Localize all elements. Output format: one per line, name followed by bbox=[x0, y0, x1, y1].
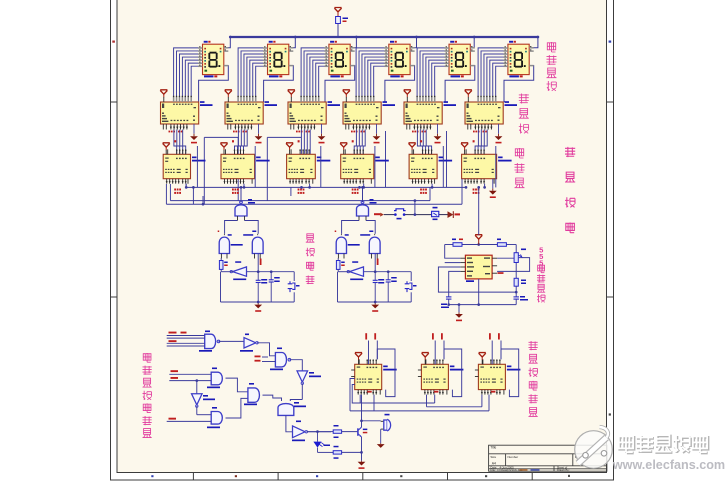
wire collector to speaker bbox=[360, 419, 381, 422]
nand gate U21B bbox=[263, 395, 307, 432]
wire BCD counter 2 to decoder 2 bbox=[235, 130, 248, 155]
inverter U19B bbox=[289, 360, 321, 400]
svg-text:Drawn By:: Drawn By: bbox=[557, 468, 570, 472]
ground decoder U5 bbox=[434, 124, 442, 143]
inverter U19C bbox=[192, 379, 216, 414]
wire display 5 return bbox=[445, 66, 475, 102]
power VCC counter U9 bbox=[286, 143, 293, 155]
wire BCD counter 1 to decoder 1 bbox=[174, 130, 186, 155]
wire trigger chain bbox=[374, 199, 448, 216]
wire display 1 return bbox=[199, 66, 229, 102]
nand gate U13A bbox=[235, 187, 255, 220]
counter U10 74LS160 bbox=[341, 140, 389, 194]
ground decoder U1 bbox=[190, 124, 198, 143]
wire bundle decoder to display 6 bbox=[478, 48, 504, 102]
power VCC decoder U4 bbox=[343, 90, 350, 102]
ground decoder U2 bbox=[255, 124, 263, 143]
nand gate U14C bbox=[360, 231, 380, 259]
label 555多谐振荡 bbox=[537, 246, 545, 303]
decoder U4 74LS48 bbox=[343, 96, 395, 133]
7-seg display DS1 bbox=[198, 41, 228, 78]
7-seg display DS2 bbox=[263, 41, 293, 78]
svg-text:Title: Title bbox=[490, 446, 496, 450]
power VCC counter U11 bbox=[409, 143, 416, 155]
wire U14 branches bbox=[342, 221, 376, 234]
power VCC divider U23 bbox=[422, 353, 429, 365]
label 数字时钟 bbox=[565, 147, 575, 233]
wire feedback loop U24 bbox=[501, 349, 519, 397]
ground decoder U6 bbox=[495, 124, 503, 143]
switch S trigger bbox=[392, 209, 409, 220]
svg-text:File:: File: bbox=[490, 468, 496, 472]
capacitor C1 555 bbox=[441, 297, 451, 308]
power VCC decoder U1 bbox=[160, 90, 167, 102]
diode D trigger bbox=[448, 211, 461, 218]
power VCC counter U8 bbox=[220, 143, 227, 155]
label 译码器 bbox=[519, 94, 529, 134]
7-seg display DS3 bbox=[324, 41, 354, 78]
nand gate U18B bbox=[255, 343, 291, 370]
wire bus row 2 bbox=[170, 184, 430, 201]
capacitor C set 1 bbox=[256, 272, 268, 302]
wire display 6 return bbox=[504, 66, 534, 102]
power VCC counter U10 bbox=[340, 143, 347, 155]
wire clock input U23 bbox=[432, 333, 444, 364]
resistor R3 555 bbox=[514, 278, 526, 292]
decoder U3 74LS48 bbox=[288, 96, 340, 133]
inverter U13D bbox=[230, 261, 246, 280]
counter U7 74LS160 bbox=[163, 140, 205, 194]
wire main bus row bbox=[186, 186, 467, 189]
inverter U19A bbox=[219, 334, 259, 352]
wire display 4 return bbox=[385, 66, 415, 102]
nand gate U18A bbox=[167, 331, 220, 352]
resistor R trigger bbox=[432, 207, 439, 220]
wire counter 11 side drop bbox=[442, 146, 444, 187]
wire counter drops bbox=[185, 184, 486, 205]
wire display 2 anode to bus bbox=[293, 36, 297, 48]
resistor R chime 2 bbox=[318, 446, 363, 459]
power VCC decoder U3 bbox=[288, 90, 295, 102]
wire BCD counter 4 to decoder 4 bbox=[354, 130, 365, 155]
svg-text:Size: Size bbox=[490, 455, 496, 459]
label 计数器 bbox=[515, 148, 525, 188]
power VCC 555 bbox=[475, 235, 482, 245]
wire carry routing right bbox=[386, 131, 447, 187]
title block bbox=[489, 445, 607, 471]
7-seg display DS5 bbox=[445, 41, 475, 78]
wire carry routing left bbox=[204, 137, 238, 204]
ground set 2 bbox=[371, 301, 379, 312]
wire bus row 3 bbox=[166, 179, 462, 206]
ground set 1 bbox=[254, 301, 262, 312]
7-seg display DS6 bbox=[503, 41, 533, 78]
nand gate U20A bbox=[169, 368, 222, 389]
power VCC top bbox=[334, 8, 341, 17]
wire clock input U22 bbox=[365, 333, 377, 364]
ground transistor bbox=[358, 461, 366, 469]
diode LED blue bbox=[307, 430, 330, 452]
decoder U5 74LS48 bbox=[404, 96, 456, 133]
counter U11 74LS160 bbox=[409, 140, 452, 194]
title block text bbox=[490, 446, 586, 472]
watermark text www.elecfans.com bbox=[612, 458, 725, 472]
7-seg display DS4 bbox=[384, 41, 414, 78]
wire bundle decoder to display 3 bbox=[301, 48, 325, 102]
ground 555 bbox=[455, 303, 463, 321]
wire divider to output bbox=[361, 395, 363, 421]
nand gate U14B bbox=[335, 231, 360, 259]
watermark text 电子发烧友 bbox=[619, 435, 708, 453]
resistor R set 2 bbox=[336, 259, 344, 272]
decoder U2 74LS48 bbox=[225, 96, 277, 133]
svg-text:www.elecfans.com: www.elecfans.com bbox=[612, 458, 725, 472]
power VCC decoder U2 bbox=[225, 90, 232, 102]
counter U24 divider bbox=[475, 359, 521, 394]
power VCC divider U22 bbox=[355, 353, 362, 365]
counter U23 divider bbox=[418, 359, 464, 394]
counter U12 74LS160 bbox=[462, 140, 512, 194]
resistor R set 1 bbox=[219, 259, 227, 272]
capacitor C2 set 1 bbox=[269, 270, 280, 302]
wire VCC bus bbox=[230, 36, 538, 38]
wire bundle decoder to display 1 bbox=[174, 48, 199, 102]
counter U9 74LS160 bbox=[287, 140, 331, 194]
nand gate U20B bbox=[167, 407, 223, 428]
capacitor C2 555 bbox=[513, 292, 528, 305]
counter U22 divider bbox=[351, 359, 397, 394]
switch S set 1 bbox=[288, 281, 300, 292]
nand gate U13B bbox=[218, 231, 243, 259]
power VCC divider U24 bbox=[479, 353, 486, 365]
label 校时电路 bbox=[306, 234, 315, 284]
wire display 1 anode to bus bbox=[228, 36, 232, 48]
nand gate U14A bbox=[357, 187, 377, 220]
wire counter 9 side drop bbox=[320, 146, 322, 187]
svg-text:Number: Number bbox=[508, 455, 519, 459]
wire counter 10 side drop bbox=[374, 146, 376, 187]
wire display 6 anode to bus bbox=[533, 36, 539, 48]
wire 555 top rail bbox=[445, 243, 517, 258]
ground decoder U4 bbox=[373, 124, 381, 143]
wire divider chain buses bbox=[350, 379, 489, 411]
nand gate U13C bbox=[243, 231, 263, 259]
decoder U1 74LS48 bbox=[161, 96, 213, 133]
ground speaker bbox=[377, 429, 385, 448]
wire 555 right loop bbox=[497, 257, 529, 278]
power VCC decoder U5 bbox=[404, 90, 411, 102]
wire display 3 anode to bus bbox=[354, 36, 358, 48]
nand gate U21A bbox=[226, 378, 260, 418]
ground decoder U3 bbox=[318, 124, 326, 143]
wire 555 left loop bbox=[438, 263, 517, 297]
wire carry routing mid bbox=[267, 137, 301, 200]
wire set rail 1 bbox=[221, 254, 295, 303]
inverter U19D bbox=[292, 421, 331, 442]
capacitor C set 2 bbox=[373, 272, 385, 302]
wire 555 bottom rail bbox=[447, 279, 516, 306]
wire feedback loop U23 bbox=[444, 349, 462, 397]
transistor Q1 bbox=[358, 421, 367, 461]
resistor R1 555 bbox=[452, 239, 463, 247]
power VCC decoder U6 bbox=[465, 90, 472, 102]
ground counter U12 bbox=[489, 179, 497, 198]
wire display 2 return bbox=[264, 66, 294, 102]
wire clock input U24 bbox=[489, 333, 501, 364]
wire bundle decoder to display 4 bbox=[356, 48, 385, 102]
counter U8 74LS160 bbox=[221, 140, 270, 194]
label 仿电台整点报时 bbox=[143, 353, 152, 438]
timer U17 NE555 bbox=[460, 255, 503, 282]
svg-text:D:\Design\clock.ddb: D:\Design\clock.ddb bbox=[498, 468, 523, 472]
power VCC counter U12 bbox=[461, 143, 468, 155]
label 数码显示 bbox=[547, 42, 557, 91]
label 三级分频电路 bbox=[529, 341, 538, 416]
wire counter 8 side drop bbox=[254, 146, 256, 187]
wire feedback loop U22 bbox=[377, 349, 395, 397]
wire counter 7 side drop bbox=[196, 146, 198, 187]
wire counter 12 side drop bbox=[495, 146, 497, 187]
wire display 4 anode to bus bbox=[414, 36, 418, 48]
wire U13 branches bbox=[225, 221, 259, 234]
wire BCD counter 5 to decoder 5 bbox=[417, 130, 431, 155]
switch S set 2 bbox=[405, 281, 417, 292]
speaker LS1 bbox=[381, 414, 391, 431]
decoder U6 74LS48 bbox=[465, 96, 517, 133]
watermark logo circle bbox=[575, 427, 613, 468]
wire bus to 555 bbox=[477, 186, 480, 235]
wire bundle decoder to display 2 bbox=[238, 48, 263, 102]
capacitor C2 set 2 bbox=[386, 270, 397, 302]
inverter U14D bbox=[347, 261, 363, 280]
wire display 3 return bbox=[325, 66, 355, 102]
power VCC counter U7 bbox=[163, 143, 170, 155]
resistor R2 555 bbox=[497, 239, 506, 247]
wire display 5 anode to bus bbox=[473, 36, 476, 48]
wire set rail 2 bbox=[338, 254, 412, 303]
fuse S1 top bbox=[336, 17, 348, 38]
wire bundle decoder to display 5 bbox=[417, 48, 445, 102]
potentiometer RP 555 bbox=[514, 249, 526, 263]
resistor R chime 1 bbox=[318, 425, 358, 438]
wire BCD counter 6 to decoder 6 bbox=[475, 130, 487, 155]
wire BCD counter 3 to decoder 3 bbox=[301, 130, 310, 155]
